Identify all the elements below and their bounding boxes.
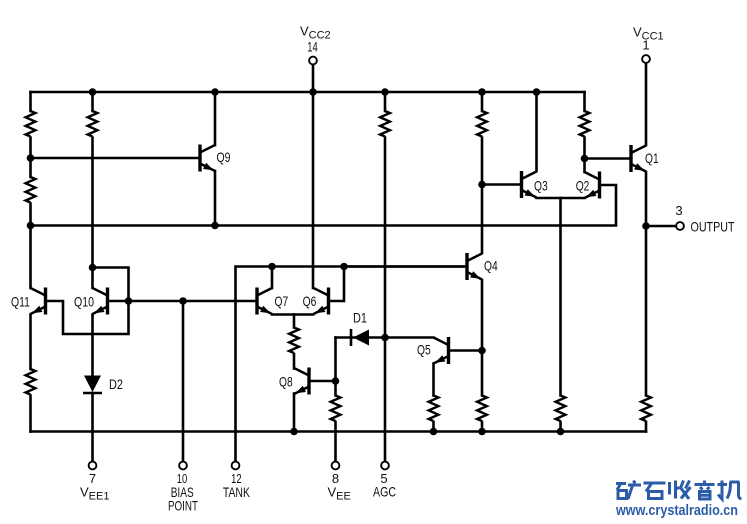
node bias point tap [179, 297, 187, 305]
wire Q8 emitter to rail [293, 394, 296, 432]
wire Q8 base [311, 380, 336, 383]
wire Q3 collector [535, 92, 538, 171]
wire R12 to rail [559, 422, 562, 432]
wire Q1 base [585, 157, 629, 160]
wire Q9 collector [214, 92, 217, 145]
wire resistor R11 to rail [481, 422, 484, 432]
svg-text:www.crystalradio.cn: www.crystalradio.cn [615, 503, 738, 519]
svg-text:1: 1 [642, 38, 649, 53]
svg-text:Q6: Q6 [303, 293, 317, 309]
terminal pin 14 VCC2 [309, 57, 317, 65]
wire mirror base rail [109, 300, 256, 303]
wire right resistor column stub [583, 92, 586, 111]
svg-text:7: 7 [89, 471, 96, 486]
node left column y158 [27, 154, 35, 162]
node Q5 base [478, 347, 486, 355]
wire bias2 column to Q4 collector [481, 138, 484, 254]
wire VCC2 terminal stub [312, 64, 315, 92]
svg-text:3: 3 [675, 203, 682, 218]
wire top VCC2 bus [31, 91, 585, 94]
resistor (Q1 emitter) [641, 396, 651, 421]
transistor Q11 [31, 288, 46, 315]
wire D2 to pin 7 [91, 393, 94, 462]
transistor Q6 [314, 288, 329, 315]
wire Q11 emitter to resistor [29, 315, 32, 370]
wire AGC column [384, 138, 387, 462]
node Q1 base Q2 collector [581, 155, 589, 163]
terminal pin 10 BIAS POINT [179, 462, 187, 470]
svg-text:AGC: AGC [373, 484, 396, 500]
svg-text:Q8: Q8 [279, 374, 293, 390]
wire bottom rail [31, 430, 647, 433]
wire Q10 emitter to D2 [91, 315, 94, 376]
svg-text:Q10: Q10 [74, 294, 94, 310]
transistor Q5 [434, 337, 449, 364]
node rail Q8 emitter [290, 428, 298, 436]
wire Q10 collector-base loop [47, 268, 129, 335]
wire second column down to Q10 collector [91, 138, 94, 289]
wire Q8 node to R9 [334, 381, 337, 396]
wire Q5 emitter to R10 [432, 364, 435, 396]
node Q8 base [332, 377, 340, 385]
wire D1 corner to Q8 base node [334, 338, 337, 382]
node rail Q5 emitter [430, 428, 438, 436]
node left column y225.5 [27, 222, 35, 230]
node top bus x385 [381, 88, 389, 96]
resistor (Q3 base column) [477, 111, 487, 137]
watermark crystalradio logo [616, 481, 742, 500]
node D1 AGC [381, 334, 389, 342]
node rail R12 [557, 428, 565, 436]
svg-text:14: 14 [307, 40, 318, 55]
node rail Q4 emitter [478, 428, 486, 436]
wire Q11 emitter resistor to rail [29, 396, 32, 432]
wire AGC column stub [384, 92, 387, 111]
svg-text:TANK: TANK [223, 484, 250, 500]
resistor (top left) [26, 111, 36, 137]
terminal pin 3 OUTPUT [676, 222, 684, 230]
wire R10 to rail [432, 422, 435, 432]
wire long mid rail to Q2 base [31, 185, 617, 226]
svg-text:OUTPUT: OUTPUT [691, 219, 735, 235]
node top bus x536.5 [533, 88, 541, 96]
wire Q4 emitter down through Q5 base node [481, 280, 484, 396]
resistor (Q11 emitter) [26, 369, 36, 394]
transistor Q10 [93, 288, 108, 315]
wire R7 to Q2 collector [583, 138, 586, 173]
transistor Q1 [631, 145, 646, 172]
diode D1 [351, 329, 369, 346]
transistor Q4 [467, 253, 482, 280]
resistor (Q3 Q2 emitters) [556, 396, 566, 421]
svg-text:Q4: Q4 [484, 258, 498, 274]
svg-text:Q7: Q7 [275, 293, 289, 309]
wire D1 net [336, 336, 434, 339]
svg-text:Q9: Q9 [217, 149, 231, 165]
terminal pin 5 AGC [381, 462, 389, 470]
wire left column mid stubs [29, 138, 32, 289]
terminal pin 1 VCC1 [642, 55, 650, 63]
node Q10 base [125, 297, 133, 305]
node Q9 emitter [211, 222, 219, 230]
resistor (Q5 emitter) [429, 396, 439, 421]
transistor Q7 [257, 288, 272, 315]
wire VCC2 column to Q6 collector [312, 92, 315, 288]
svg-text:Q2: Q2 [576, 178, 590, 194]
svg-text:Q3: Q3 [534, 178, 548, 194]
wire R9 to pin 8 [334, 422, 337, 462]
resistor (Q7 Q6 emitters) [289, 328, 299, 353]
resistor (pin 8 VEE) [331, 396, 341, 421]
wire resistor to Q8 collector [293, 354, 296, 369]
node Q3 base Q4 collector [478, 181, 486, 189]
wire Q7 collector [271, 267, 274, 289]
node Q7 collector [268, 263, 276, 271]
svg-text:D2: D2 [109, 376, 123, 392]
wire Q9 emitter [214, 171, 217, 226]
node Q6 base [340, 263, 348, 271]
terminal pin 12 TANK [232, 462, 240, 470]
wire bias2 column stub [481, 92, 484, 111]
wire bias point drop [182, 301, 185, 462]
node top bus x482 [478, 88, 486, 96]
transistor Q9 [200, 145, 215, 172]
diode D2 [83, 376, 102, 394]
wire tank net [236, 267, 466, 462]
svg-text:Q11: Q11 [11, 294, 30, 310]
transistor Q8 [294, 368, 309, 395]
wire VCC1 to Q1 collector [645, 63, 648, 145]
svg-text:Q1: Q1 [645, 150, 659, 166]
wire Q9 base [31, 157, 199, 160]
resistor (second column) [88, 111, 98, 137]
wire emitter junction to R12 [559, 198, 562, 396]
terminal pin 8 VEE [332, 462, 340, 470]
wire left column upper stub [29, 92, 32, 111]
wire output stub [646, 225, 676, 228]
svg-text:D1: D1 [353, 310, 367, 326]
svg-text:Q5: Q5 [417, 342, 431, 358]
wire Q7 Q6 emitter junction [272, 313, 313, 316]
resistor (Q4 emitter) [477, 396, 487, 421]
wire Q1 emitter to R13 [645, 172, 648, 396]
wire R13 to rail [645, 422, 648, 432]
node top bus x92.5 [89, 88, 97, 96]
svg-text:POINT: POINT [168, 498, 198, 514]
resistor (Q2 collector) [580, 111, 590, 137]
wire emitter junction tap to resistor [293, 315, 296, 328]
resistor (left lower) [26, 177, 36, 203]
svg-text:VEE1: VEE1 [80, 485, 109, 503]
wire Q6 base loop [331, 267, 345, 302]
node output [642, 222, 650, 230]
svg-text:VEE: VEE [328, 485, 351, 503]
wire Q5 base [450, 349, 482, 352]
wire Q4 base [344, 265, 465, 268]
node top bus x215 [211, 88, 219, 96]
transistor Q2 [585, 172, 600, 199]
transistor Q3 [522, 171, 537, 198]
wire Q3 Q2 emitter junction [537, 197, 585, 200]
node Q10 collector [89, 264, 97, 272]
wire Q3 base [482, 183, 519, 186]
node top bus x313 [309, 88, 317, 96]
wire second column stub [91, 92, 94, 111]
resistor (AGC column) [380, 111, 390, 137]
terminal pin 7 VEE1 [89, 462, 97, 470]
